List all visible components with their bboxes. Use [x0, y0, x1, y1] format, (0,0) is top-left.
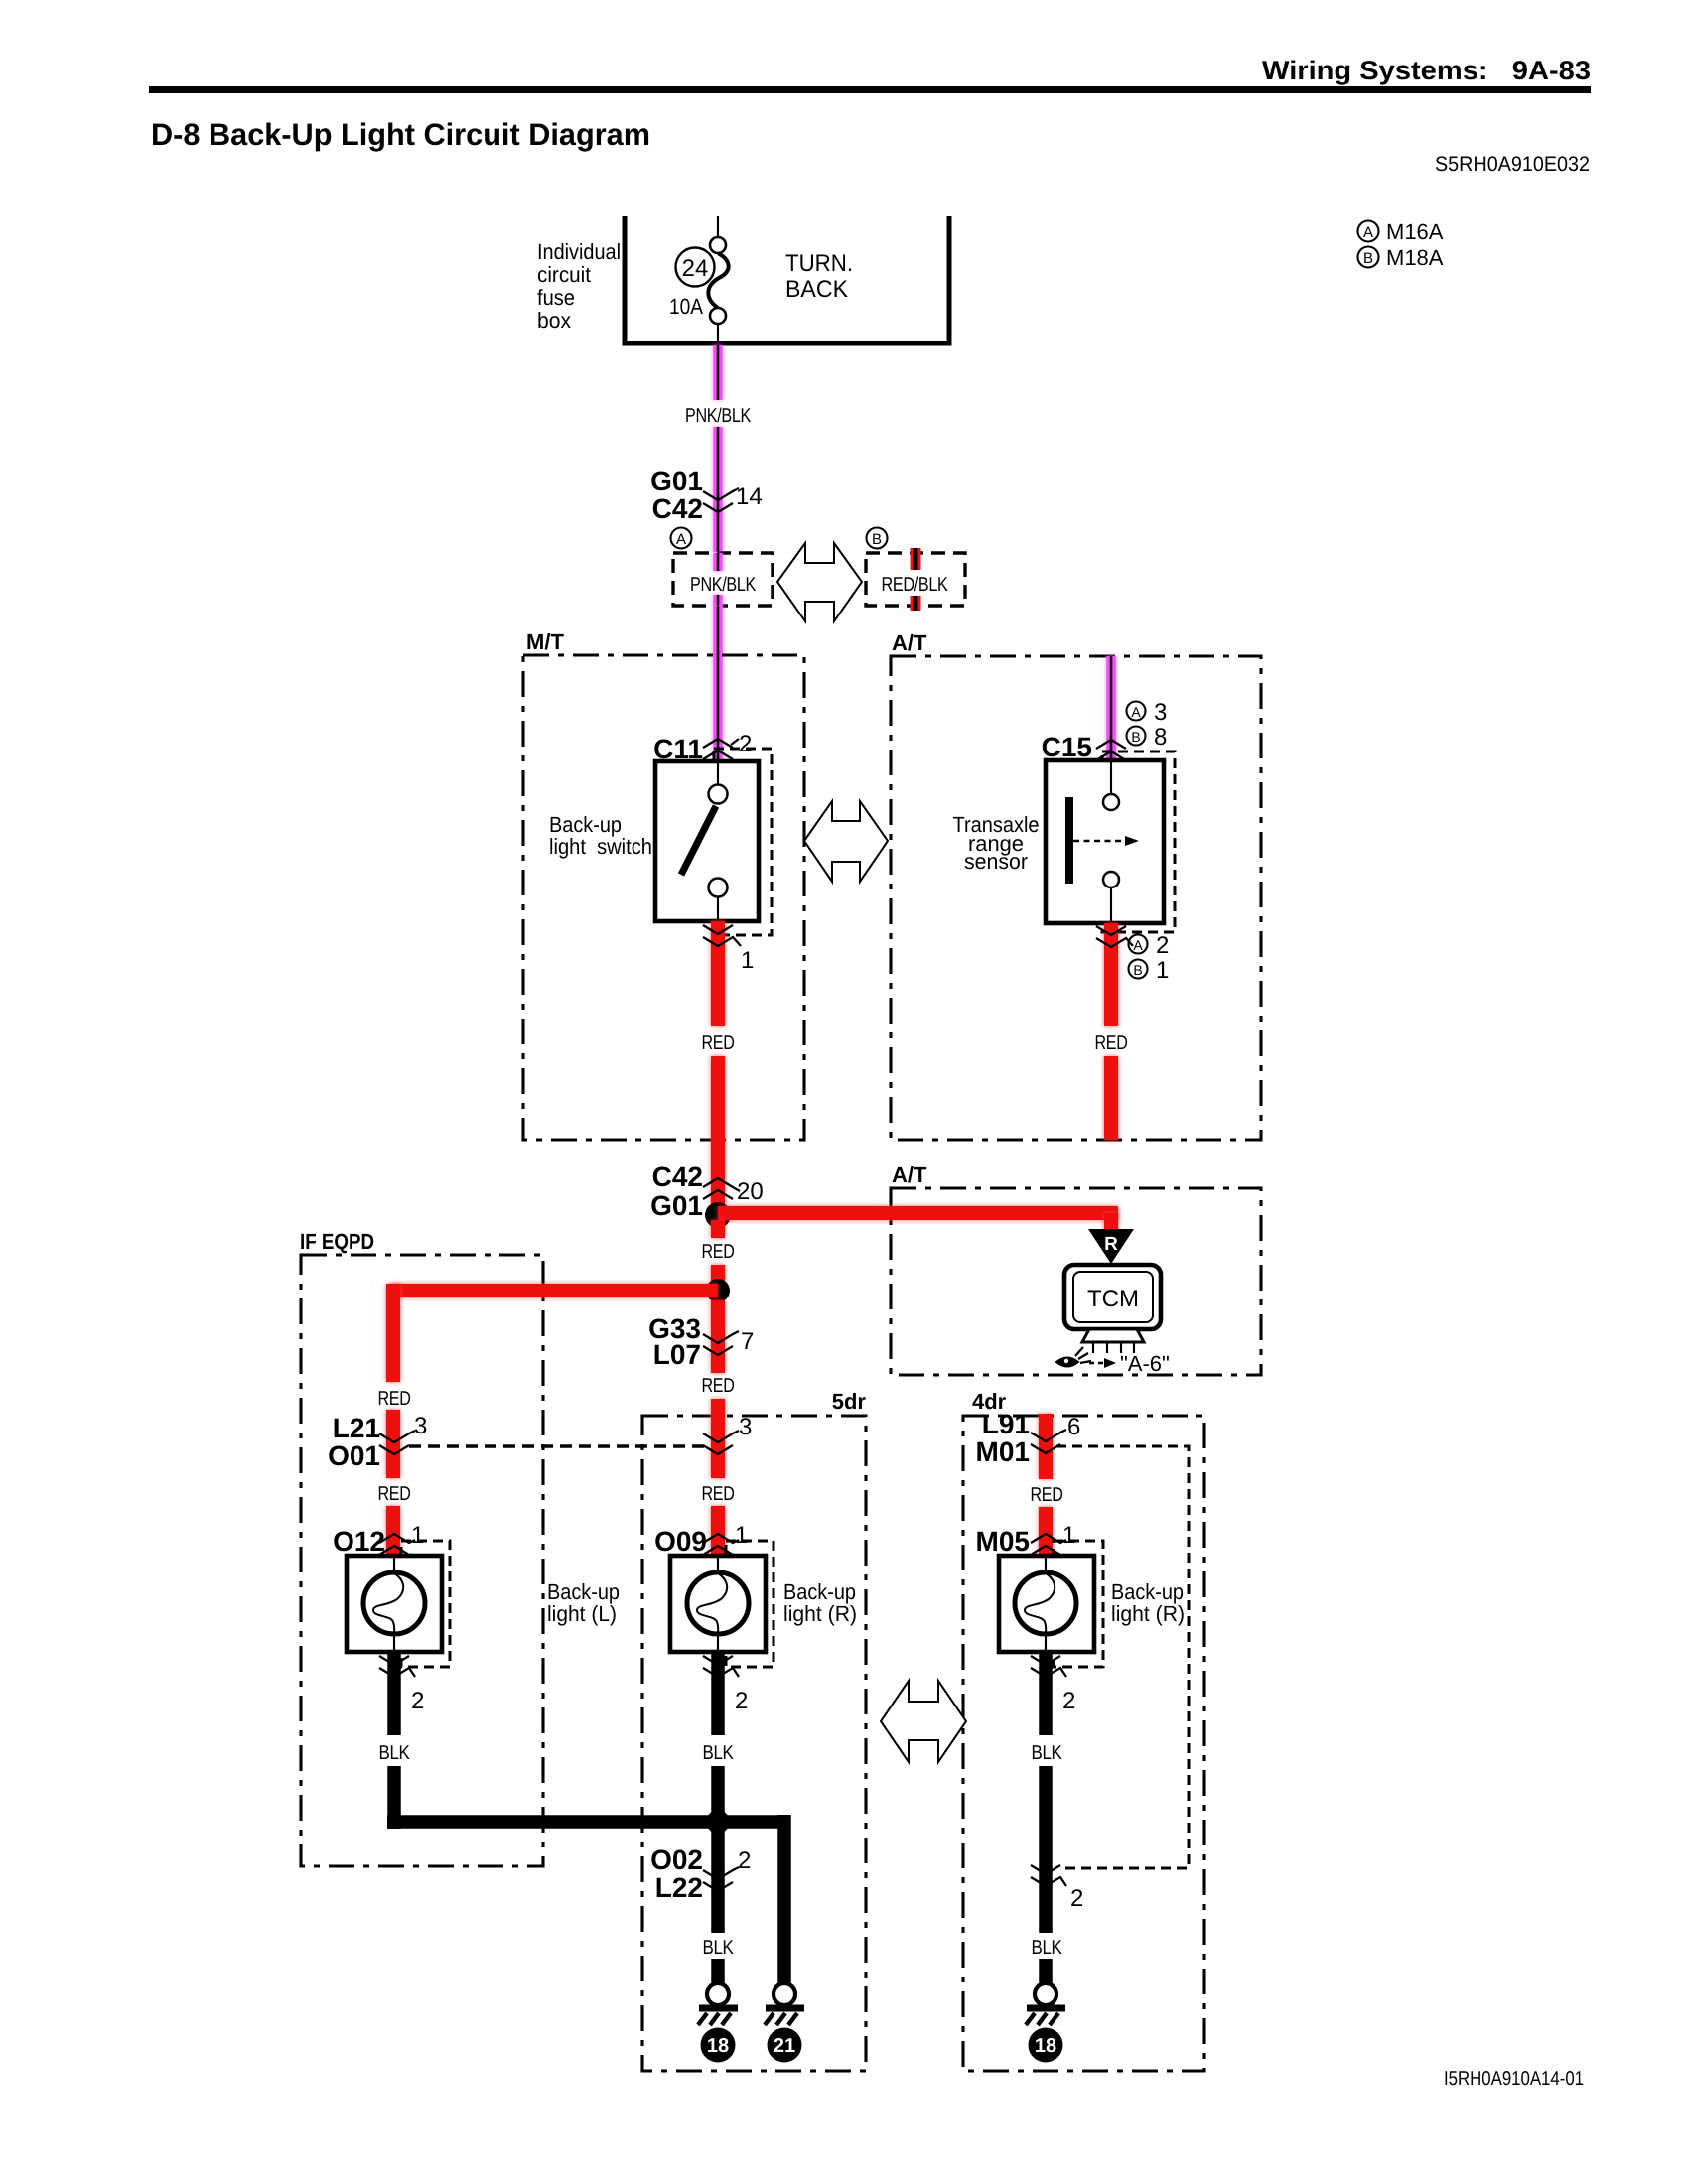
back-up light (L) bulb	[347, 1556, 442, 1652]
node junction diamond	[702, 1805, 734, 1839]
svg-text:RED: RED	[702, 1483, 735, 1505]
connector O09 dashed outline	[726, 1541, 774, 1667]
svg-text:BLK: BLK	[703, 1937, 735, 1959]
wire RED center below G33/L07	[711, 1300, 725, 1373]
connector below M05 pin 2	[1031, 1656, 1060, 1665]
svg-text:18: 18	[1035, 2035, 1056, 2057]
connector C11 dashed outline	[714, 749, 772, 935]
svg-text:light (R): light (R)	[783, 1601, 857, 1626]
connector L91/M01 chevrons pin 6	[1031, 1430, 1066, 1441]
svg-text:RED/BLK: RED/BLK	[882, 574, 949, 596]
wire RED right column	[1039, 1414, 1053, 1479]
svg-text:2: 2	[735, 1688, 748, 1714]
svg-text:O02: O02	[650, 1844, 703, 1875]
svg-text:BLK: BLK	[1032, 1937, 1063, 1959]
svg-text:1: 1	[411, 1522, 424, 1549]
svg-text:circuit: circuit	[537, 262, 591, 287]
equivalence arrow between A and B wire boxes	[777, 543, 862, 621]
connector below O09 pin 2	[703, 1656, 733, 1665]
svg-text:light (L): light (L)	[547, 1601, 617, 1626]
junction block label box A PNK/BLK	[671, 528, 692, 549]
switch contact top	[717, 761, 719, 784]
svg-text:RED: RED	[378, 1388, 411, 1410]
wire PNK/BLK continues	[713, 427, 723, 552]
connector 3 chevrons on center wire	[703, 1431, 739, 1442]
svg-text:A/T: A/T	[892, 630, 927, 655]
svg-text:G01: G01	[650, 466, 703, 496]
back-up light (R) bulb 4dr	[999, 1556, 1094, 1652]
connector pin 2 on 4dr column	[1031, 1865, 1060, 1874]
wire BLK horizontal run	[387, 1815, 784, 1829]
svg-text:BLK: BLK	[1032, 1742, 1063, 1764]
svg-text:R: R	[1104, 1234, 1118, 1255]
legend circle A M16A	[1358, 221, 1379, 242]
connector below O12 pin 2	[379, 1656, 409, 1665]
svg-text:"A-6": "A-6"	[1120, 1351, 1170, 1376]
svg-text:D-8 Back-Up Light Circuit Diag: D-8 Back-Up Light Circuit Diagram	[151, 117, 650, 152]
svg-text:RED: RED	[378, 1483, 411, 1505]
svg-text:RED: RED	[702, 1241, 735, 1263]
node junction dot 2	[711, 1220, 725, 1238]
connector G01/C42 chevrons pin 14	[703, 488, 739, 500]
svg-text:O01: O01	[328, 1440, 380, 1471]
connector L21/O01 chevrons pin 3	[379, 1431, 415, 1442]
connector C42/G01 chevrons pin 20	[703, 1178, 740, 1191]
ground symbol 18 (4dr)	[1035, 1983, 1056, 2005]
svg-text:2: 2	[739, 731, 752, 757]
dashed connector link line	[409, 1444, 705, 1447]
svg-text:fuse: fuse	[537, 285, 575, 310]
svg-text:M01: M01	[976, 1436, 1030, 1467]
dashed pointer to "A-6"	[1089, 1362, 1104, 1365]
svg-text:TCM: TCM	[1087, 1286, 1139, 1312]
connector C15 chevrons	[1096, 740, 1126, 749]
svg-text:A: A	[1131, 704, 1141, 720]
svg-text:2: 2	[1070, 1885, 1083, 1912]
svg-text:2: 2	[411, 1688, 424, 1714]
svg-text:BLK: BLK	[703, 1742, 735, 1764]
TCM module	[1064, 1265, 1161, 1329]
svg-text:A/T: A/T	[892, 1162, 927, 1187]
svg-text:B: B	[1131, 729, 1140, 745]
svg-text:1: 1	[741, 947, 754, 974]
pin labels circle A 2 / circle B 1	[1129, 935, 1148, 954]
svg-text:RED: RED	[1095, 1032, 1128, 1054]
connector M05 dashed outline	[1054, 1541, 1103, 1667]
svg-text:S5RH0A910E032: S5RH0A910E032	[1435, 153, 1590, 176]
svg-text:M/T: M/T	[526, 629, 564, 654]
svg-text:1: 1	[735, 1522, 748, 1549]
svg-text:21: 21	[774, 2035, 795, 2057]
connector below C11 chevrons pin 1	[703, 925, 733, 934]
fuse number circle 24	[676, 248, 715, 287]
svg-text:TURN.: TURN.	[785, 250, 853, 277]
svg-text:A: A	[1133, 937, 1143, 953]
wire into fuse	[717, 216, 719, 238]
svg-text:3: 3	[1154, 699, 1167, 726]
svg-text:C42: C42	[652, 1161, 703, 1192]
wire BLK left column	[387, 1652, 401, 1735]
equivalence arrow M/T to A/T	[804, 801, 888, 882]
wire RED horizontal to TCM	[718, 1206, 1118, 1220]
svg-text:O09: O09	[654, 1526, 707, 1557]
svg-text:light switch: light switch	[549, 834, 652, 859]
TCM base and pins	[1082, 1329, 1144, 1342]
fuse F24 symbol	[710, 237, 726, 253]
svg-text:PNK/BLK: PNK/BLK	[685, 405, 752, 427]
wire BLK right drop to ground 21	[777, 1815, 791, 1983]
svg-text:A: A	[676, 531, 686, 548]
svg-text:M18A: M18A	[1386, 245, 1444, 270]
connector C11 chevrons pin 2	[703, 739, 733, 748]
svg-text:18: 18	[707, 2035, 729, 2057]
svg-text:C42: C42	[652, 493, 703, 524]
svg-text:8: 8	[1154, 724, 1167, 751]
wire PNK/BLK in A/T box	[1106, 656, 1116, 760]
svg-text:PNK/BLK: PNK/BLK	[690, 574, 757, 596]
inner dashed connector box 4dr	[1056, 1446, 1189, 1868]
legend circle B M18A	[1358, 247, 1379, 268]
switch blade	[681, 806, 716, 875]
svg-text:1: 1	[1156, 957, 1169, 984]
svg-text:3: 3	[414, 1413, 427, 1439]
wire BLK center column	[711, 1652, 725, 1735]
svg-text:A: A	[1363, 224, 1373, 241]
svg-text:1: 1	[1062, 1522, 1075, 1549]
svg-text:B: B	[872, 531, 882, 548]
wire RED below switch	[711, 921, 725, 1026]
svg-text:2: 2	[738, 1847, 751, 1874]
svg-text:6: 6	[1067, 1414, 1080, 1440]
sensor bar	[1065, 797, 1073, 884]
svg-text:M05: M05	[976, 1526, 1030, 1557]
see reference eye symbol	[1056, 1358, 1078, 1367]
svg-text:10A: 10A	[669, 294, 703, 319]
header rule	[149, 86, 1591, 93]
wire BLK 4dr column	[1039, 1652, 1053, 1735]
svg-text:14: 14	[736, 483, 763, 510]
svg-text:B: B	[1363, 250, 1373, 267]
svg-text:BACK: BACK	[785, 276, 848, 303]
svg-text:IF EQPD: IF EQPD	[300, 1229, 374, 1254]
wire PNK/BLK down to C11	[713, 607, 723, 760]
connector C15 dashed outline	[1102, 751, 1175, 932]
svg-text:I5RH0A910A14-01: I5RH0A910A14-01	[1444, 2068, 1584, 2090]
switch contact bottom	[709, 879, 728, 897]
sensor dashed arrow	[1073, 840, 1125, 843]
svg-text:box: box	[537, 308, 571, 333]
transaxle range sensor body	[1046, 760, 1164, 923]
connector O12 dashed outline	[401, 1541, 450, 1667]
connector G33/L07 chevrons pin 7	[703, 1331, 739, 1343]
svg-text:3: 3	[739, 1414, 752, 1440]
sensor contacts	[1110, 760, 1112, 794]
svg-text:5dr: 5dr	[832, 1389, 867, 1414]
connector below C15 chevrons	[1096, 926, 1126, 935]
svg-text:O12: O12	[333, 1526, 385, 1557]
svg-text:24: 24	[682, 255, 709, 282]
svg-text:L91: L91	[982, 1409, 1030, 1439]
svg-text:7: 7	[741, 1328, 754, 1355]
arrow R into TCM	[1088, 1229, 1134, 1264]
pin labels circle A 3 / circle B 8	[1127, 702, 1146, 721]
svg-text:20: 20	[737, 1178, 764, 1205]
svg-text:B: B	[1133, 962, 1142, 978]
svg-text:L07: L07	[653, 1339, 701, 1370]
svg-text:2: 2	[1062, 1688, 1075, 1714]
svg-text:L22: L22	[655, 1872, 703, 1903]
ground symbol 18 (5dr)	[707, 1983, 729, 2005]
svg-text:sensor: sensor	[964, 849, 1028, 874]
svg-text:RED: RED	[702, 1375, 735, 1397]
svg-text:C15: C15	[1042, 732, 1092, 762]
svg-text:BLK: BLK	[379, 1742, 411, 1764]
svg-text:M16A: M16A	[1386, 219, 1444, 244]
svg-text:2: 2	[1156, 932, 1169, 959]
equivalence arrow 5dr to 4dr	[881, 1681, 966, 1762]
svg-text:G01: G01	[650, 1190, 703, 1221]
wire RED below sensor	[1104, 923, 1118, 1026]
svg-text:L21: L21	[333, 1413, 380, 1443]
individual circuit fuse box outline	[625, 216, 949, 343]
wire PNK/BLK from fuse box	[713, 345, 723, 400]
back-up light (R) bulb 5dr	[670, 1556, 766, 1652]
svg-text:light (R): light (R)	[1111, 1601, 1185, 1626]
wire RED branch to left	[393, 1284, 718, 1297]
svg-text:Individual: Individual	[537, 239, 621, 264]
svg-text:RED: RED	[702, 1032, 735, 1054]
ground symbol 21	[774, 1983, 795, 2005]
junction block label box B RED/BLK	[867, 528, 888, 549]
svg-text:RED: RED	[1031, 1484, 1063, 1506]
back-up light switch body	[655, 761, 759, 921]
svg-text:Wiring Systems: 9A-83: Wiring Systems: 9A-83	[1262, 56, 1591, 85]
node junction dot 1	[705, 1202, 731, 1228]
